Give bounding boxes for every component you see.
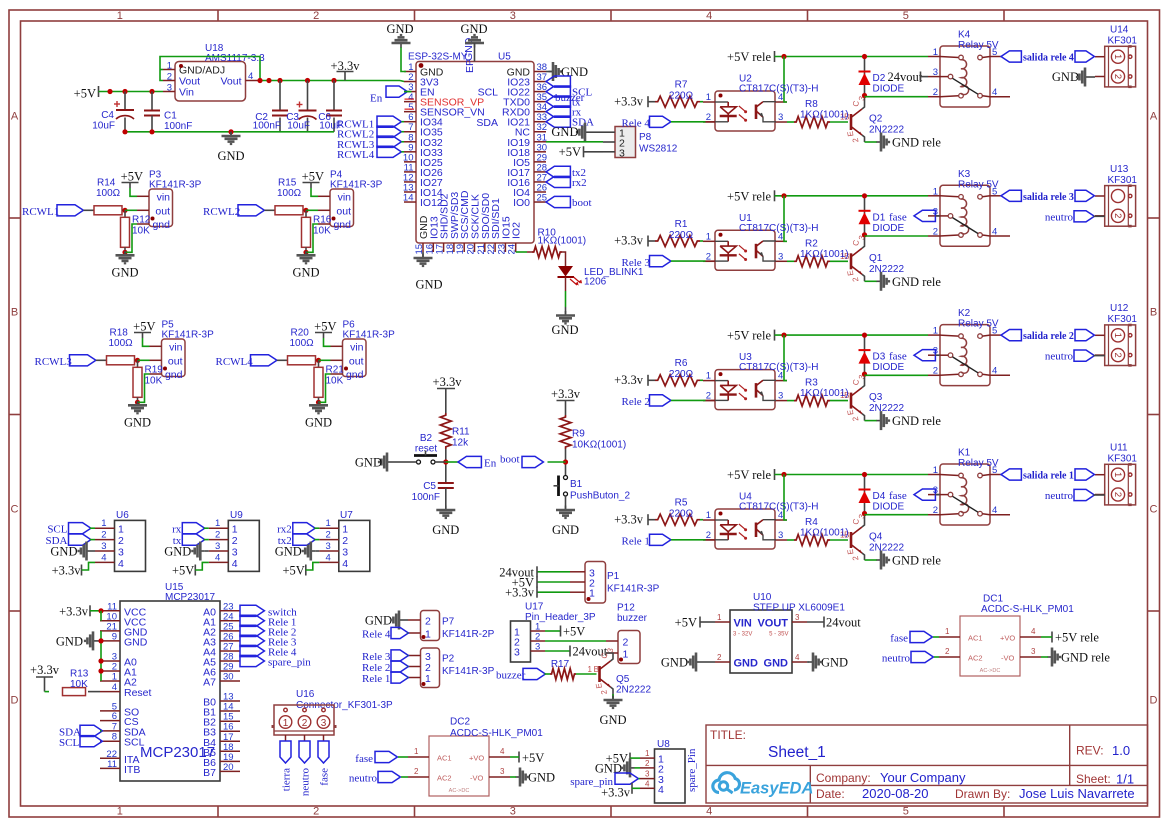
svg-text:11: 11 — [107, 759, 117, 770]
svg-text:2N2222: 2N2222 — [616, 685, 651, 696]
svg-text:3: 3 — [535, 642, 540, 653]
svg-text:GND rele: GND rele — [892, 554, 941, 568]
svg-text:K4: K4 — [958, 30, 971, 41]
svg-text:Rele 1: Rele 1 — [362, 673, 390, 685]
svg-text:GND: GND — [415, 278, 442, 292]
svg-text:AC1: AC1 — [437, 754, 452, 763]
svg-text:4: 4 — [101, 552, 106, 563]
svg-text:3 - 32V: 3 - 32V — [733, 632, 752, 638]
svg-text:Rele 4: Rele 4 — [362, 629, 391, 641]
svg-text:1: 1 — [933, 47, 938, 58]
svg-text:DC1: DC1 — [983, 594, 1003, 605]
svg-text:10uF: 10uF — [287, 121, 310, 132]
svg-text:P8: P8 — [639, 132, 652, 143]
svg-text:SCL: SCL — [478, 87, 499, 99]
svg-text:GND: GND — [561, 65, 588, 79]
svg-text:R18: R18 — [110, 328, 129, 339]
svg-text:+5V: +5V — [302, 170, 324, 184]
svg-text:GND: GND — [164, 545, 191, 559]
svg-text:salida rele 3: salida rele 3 — [1023, 192, 1074, 203]
svg-text:3: 3 — [933, 67, 938, 78]
svg-text:Drawn By:: Drawn By: — [955, 787, 1010, 801]
svg-text:1KΩ(1001): 1KΩ(1001) — [800, 528, 849, 539]
svg-text:vin: vin — [169, 341, 183, 353]
svg-text:4: 4 — [232, 558, 238, 570]
svg-text:1: 1 — [706, 510, 711, 521]
svg-text:boot: boot — [572, 197, 592, 209]
svg-text:1KΩ(1001): 1KΩ(1001) — [800, 388, 849, 399]
svg-text:1: 1 — [706, 371, 711, 382]
svg-text:R15: R15 — [278, 178, 297, 189]
svg-text:-VO: -VO — [1001, 654, 1015, 663]
svg-text:3: 3 — [795, 613, 800, 622]
svg-text:3: 3 — [778, 251, 783, 262]
svg-text:AC->DC: AC->DC — [449, 788, 470, 794]
svg-text:C: C — [11, 504, 19, 516]
svg-text:8: 8 — [112, 732, 117, 743]
svg-text:3: 3 — [645, 770, 650, 779]
svg-text:GND rele: GND rele — [892, 414, 941, 428]
svg-text:buzzer: buzzer — [617, 613, 648, 624]
svg-text:GND: GND — [292, 265, 319, 279]
svg-text:neutro: neutro — [300, 768, 312, 797]
svg-text:R3: R3 — [805, 378, 818, 389]
svg-text:U9: U9 — [230, 510, 243, 521]
svg-text:1: 1 — [117, 10, 123, 22]
svg-text:P1: P1 — [607, 571, 620, 582]
svg-text:gnd: gnd — [165, 369, 183, 381]
svg-text:Relay 5V: Relay 5V — [958, 458, 999, 469]
svg-text:4: 4 — [118, 558, 124, 570]
svg-text:1: 1 — [283, 718, 289, 729]
svg-text:4: 4 — [326, 552, 331, 563]
svg-text:fase: fase — [889, 490, 907, 502]
svg-text:neutro: neutro — [1045, 351, 1074, 363]
svg-text:4: 4 — [992, 226, 997, 237]
svg-text:spare_pin: spare_pin — [268, 657, 311, 669]
svg-text:1.0: 1.0 — [1112, 743, 1130, 758]
svg-text:+3.3v: +3.3v — [614, 234, 644, 248]
svg-text:220Ω: 220Ω — [669, 509, 694, 520]
svg-text:R20: R20 — [291, 328, 310, 339]
svg-text:3: 3 — [500, 767, 505, 776]
svg-text:GND: GND — [821, 656, 848, 670]
svg-text:2: 2 — [717, 653, 722, 662]
svg-text:fase: fase — [319, 768, 331, 786]
svg-text:RCWL4: RCWL4 — [216, 356, 254, 368]
svg-text:KF141R-2P: KF141R-2P — [442, 629, 495, 640]
svg-text:+5V rele: +5V rele — [727, 189, 771, 203]
svg-text:U14: U14 — [1110, 25, 1129, 36]
svg-text:GND: GND — [734, 658, 759, 670]
svg-text:RCWL2: RCWL2 — [203, 206, 240, 218]
svg-text:3: 3 — [326, 541, 331, 552]
svg-text:KF141R-3P: KF141R-3P — [330, 180, 383, 191]
svg-text:B7: B7 — [203, 767, 216, 779]
svg-text:P7: P7 — [442, 617, 455, 628]
svg-text:4: 4 — [992, 366, 997, 377]
svg-text:D: D — [1150, 695, 1158, 707]
svg-text:2: 2 — [623, 637, 629, 649]
svg-text:1KΩ(1001): 1KΩ(1001) — [538, 236, 587, 247]
svg-text:A: A — [11, 111, 19, 123]
svg-text:1: 1 — [933, 186, 938, 197]
svg-text:gnd: gnd — [346, 369, 364, 381]
svg-text:GND: GND — [551, 323, 578, 337]
svg-text:10KΩ(1001): 10KΩ(1001) — [572, 440, 626, 451]
svg-text:C4: C4 — [101, 110, 114, 121]
svg-text:Company:: Company: — [816, 771, 871, 785]
svg-text:MCP23017: MCP23017 — [165, 592, 215, 603]
svg-text:Relay 5V: Relay 5V — [958, 319, 999, 330]
svg-text:Q4: Q4 — [869, 532, 883, 543]
svg-text:DIODE: DIODE — [873, 223, 905, 234]
svg-text:REV:: REV: — [1076, 744, 1104, 758]
svg-text:salida rele 2: salida rele 2 — [1023, 331, 1074, 342]
svg-text:4: 4 — [1031, 627, 1036, 636]
svg-text:2: 2 — [118, 535, 124, 547]
svg-text:+3.3v: +3.3v — [59, 605, 89, 619]
svg-text:+5V: +5V — [121, 170, 143, 184]
svg-text:3: 3 — [321, 718, 327, 729]
svg-text:2: 2 — [342, 535, 348, 547]
svg-text:1: 1 — [112, 672, 117, 683]
svg-text:+5V: +5V — [282, 564, 304, 578]
svg-text:3: 3 — [619, 147, 625, 159]
svg-text:2: 2 — [313, 10, 319, 22]
svg-text:4: 4 — [992, 505, 997, 516]
svg-text:2: 2 — [167, 72, 172, 83]
svg-text:GND: GND — [50, 545, 77, 559]
svg-text:C5: C5 — [423, 481, 436, 492]
svg-text:+5V: +5V — [675, 616, 697, 630]
svg-text:2: 2 — [645, 759, 650, 768]
svg-text:Q1: Q1 — [869, 253, 883, 264]
svg-text:+5V rele: +5V rele — [727, 468, 771, 482]
svg-text:KF301: KF301 — [1108, 314, 1138, 325]
svg-text:1: 1 — [933, 465, 938, 476]
svg-text:Relay 5V: Relay 5V — [958, 40, 999, 51]
svg-text:3: 3 — [778, 112, 783, 123]
svg-text:GND: GND — [365, 614, 392, 628]
svg-text:out: out — [155, 205, 170, 217]
svg-text:WS2812: WS2812 — [639, 144, 678, 155]
svg-text:B: B — [594, 665, 599, 674]
svg-text:fase: fase — [889, 211, 907, 223]
svg-text:4: 4 — [248, 71, 253, 82]
svg-text:+5V: +5V — [172, 564, 194, 578]
svg-text:U8: U8 — [657, 739, 670, 750]
svg-text:1: 1 — [588, 665, 593, 674]
svg-text:Rele 1: Rele 1 — [622, 536, 650, 548]
svg-text:1: 1 — [706, 92, 711, 103]
svg-text:SCL: SCL — [59, 737, 79, 749]
svg-text:+VO: +VO — [469, 754, 484, 763]
svg-text:DC2: DC2 — [450, 717, 470, 728]
svg-text:GND rele: GND rele — [892, 136, 941, 150]
svg-text:tierra: tierra — [281, 768, 293, 791]
svg-text:3: 3 — [1031, 647, 1036, 656]
svg-text:RCWL4: RCWL4 — [337, 149, 375, 161]
svg-text:4: 4 — [658, 784, 664, 796]
svg-text:+5V: +5V — [522, 751, 544, 765]
svg-text:100Ω: 100Ω — [96, 188, 121, 199]
svg-text:1: 1 — [623, 649, 629, 661]
svg-text:ACDC-S-HLK_PM01: ACDC-S-HLK_PM01 — [981, 604, 1074, 615]
svg-text:GND: GND — [764, 658, 789, 670]
svg-text:GND: GND — [599, 713, 626, 727]
svg-text:3: 3 — [510, 10, 516, 22]
svg-text:1: 1 — [167, 61, 172, 72]
svg-text:1: 1 — [101, 518, 106, 529]
svg-text:3: 3 — [215, 541, 220, 552]
svg-text:IO2: IO2 — [511, 222, 523, 239]
svg-text:24vout: 24vout — [826, 616, 861, 630]
svg-text:5: 5 — [903, 10, 909, 22]
svg-text:neutro: neutro — [349, 773, 378, 785]
svg-text:220Ω: 220Ω — [669, 91, 694, 102]
svg-text:1: 1 — [706, 231, 711, 242]
svg-text:+5V: +5V — [133, 320, 155, 334]
svg-text:2: 2 — [425, 616, 431, 628]
svg-text:U16: U16 — [296, 689, 315, 700]
svg-text:salida rele 1: salida rele 1 — [1023, 471, 1074, 482]
svg-text:1: 1 — [425, 629, 431, 641]
svg-text:Date:: Date: — [816, 787, 845, 801]
svg-text:2: 2 — [945, 647, 950, 656]
svg-text:1: 1 — [933, 326, 938, 337]
svg-text:2: 2 — [101, 530, 106, 541]
svg-text:R1: R1 — [675, 219, 688, 230]
svg-text:2: 2 — [933, 87, 938, 98]
svg-text:D4: D4 — [873, 491, 886, 502]
svg-text:R5: R5 — [675, 498, 688, 509]
svg-text:R2: R2 — [805, 238, 818, 249]
svg-text:+VO: +VO — [1000, 634, 1015, 643]
svg-text:neutro: neutro — [1045, 490, 1074, 502]
svg-text:K1: K1 — [958, 448, 971, 459]
svg-text:out: out — [349, 355, 364, 367]
svg-text:fase: fase — [355, 753, 373, 765]
svg-text:GND: GND — [305, 415, 332, 429]
svg-text:GND: GND — [275, 545, 302, 559]
svg-text:GND: GND — [355, 456, 382, 470]
svg-text:10K: 10K — [132, 225, 150, 236]
svg-text:VIN: VIN — [734, 618, 752, 630]
svg-text:2N2222: 2N2222 — [869, 264, 904, 275]
svg-text:2: 2 — [933, 226, 938, 237]
svg-text:R9: R9 — [572, 429, 585, 440]
svg-text:3: 3 — [514, 647, 520, 659]
svg-text:rx2: rx2 — [277, 524, 292, 536]
svg-text:KF301: KF301 — [1108, 175, 1138, 186]
svg-text:DIODE: DIODE — [873, 502, 905, 513]
svg-text:GND: GND — [386, 22, 413, 36]
svg-text:CT817C(S)(T3)-H: CT817C(S)(T3)-H — [739, 502, 818, 513]
svg-text:EasyEDA: EasyEDA — [740, 780, 813, 798]
svg-text:ITB: ITB — [124, 764, 140, 776]
svg-text:CT817C(S)(T3)-H: CT817C(S)(T3)-H — [739, 223, 818, 234]
svg-text:+5V rele: +5V rele — [1055, 631, 1099, 645]
svg-text:+3.3v: +3.3v — [614, 373, 644, 387]
svg-text:+3.3v: +3.3v — [30, 663, 60, 677]
svg-text:+3.3v: +3.3v — [601, 786, 631, 800]
svg-text:boot: boot — [500, 454, 520, 466]
svg-text:1: 1 — [326, 518, 331, 529]
svg-text:GND rele: GND rele — [892, 275, 941, 289]
svg-text:Vin: Vin — [179, 87, 194, 99]
svg-text:4: 4 — [112, 682, 117, 693]
svg-text:2: 2 — [326, 530, 331, 541]
svg-text:GND: GND — [111, 265, 138, 279]
svg-text:5 - 35V: 5 - 35V — [769, 632, 788, 638]
svg-text:10uF: 10uF — [92, 121, 115, 132]
svg-text:Q3: Q3 — [869, 392, 883, 403]
svg-text:4: 4 — [500, 747, 505, 756]
svg-text:GND: GND — [528, 771, 555, 785]
svg-text:+3.3v: +3.3v — [52, 564, 82, 578]
svg-text:SCL: SCL — [124, 737, 145, 749]
svg-text:1KΩ(1001): 1KΩ(1001) — [800, 249, 849, 260]
svg-text:R14: R14 — [97, 178, 116, 189]
svg-text:4: 4 — [342, 558, 348, 570]
svg-text:Reset: Reset — [124, 687, 152, 699]
svg-text:GND: GND — [124, 636, 148, 648]
svg-text:4: 4 — [215, 552, 220, 563]
svg-text:B: B — [11, 307, 18, 319]
svg-text:buzzer: buzzer — [555, 92, 585, 104]
svg-text:DIODE: DIODE — [873, 84, 905, 95]
svg-text:3: 3 — [118, 547, 124, 559]
svg-text:KF301: KF301 — [1108, 36, 1138, 47]
svg-text:+5V rele: +5V rele — [727, 329, 771, 343]
svg-text:SCL: SCL — [47, 524, 67, 536]
svg-text:GND: GND — [661, 656, 688, 670]
svg-text:3: 3 — [778, 391, 783, 402]
svg-text:2: 2 — [1112, 492, 1123, 497]
svg-text:2: 2 — [215, 530, 220, 541]
svg-text:rx: rx — [172, 524, 182, 536]
svg-text:neutro: neutro — [1045, 211, 1074, 223]
svg-text:STEP UP XL6009E1: STEP UP XL6009E1 — [753, 603, 845, 614]
svg-text:U13: U13 — [1110, 164, 1129, 175]
svg-text:10K: 10K — [145, 375, 163, 386]
svg-text:B: B — [1150, 307, 1157, 319]
svg-text:10K: 10K — [313, 225, 331, 236]
svg-text:Vout: Vout — [220, 76, 241, 88]
svg-text:Rele 4: Rele 4 — [622, 118, 651, 130]
svg-text:D2: D2 — [873, 73, 886, 84]
svg-text:20: 20 — [223, 762, 234, 773]
svg-text:CT817C(S)(T3)-H: CT817C(S)(T3)-H — [739, 84, 818, 95]
svg-text:GND rele: GND rele — [1061, 651, 1110, 665]
svg-text:Relay 5V: Relay 5V — [958, 179, 999, 190]
svg-text:TITLE:: TITLE: — [710, 728, 746, 742]
svg-text:+5V: +5V — [314, 320, 336, 334]
svg-text:GND: GND — [56, 635, 83, 649]
svg-text:A7: A7 — [203, 677, 216, 689]
svg-text:4: 4 — [795, 653, 800, 662]
svg-text:2: 2 — [232, 535, 238, 547]
svg-text:PushButon_2: PushButon_2 — [570, 491, 630, 502]
svg-text:GND: GND — [432, 523, 459, 537]
svg-text:KF141R-3P: KF141R-3P — [442, 666, 495, 677]
svg-text:1: 1 — [1112, 54, 1123, 59]
svg-text:RCWL3: RCWL3 — [35, 356, 73, 368]
svg-text:+5V: +5V — [74, 87, 96, 101]
svg-text:GND: GND — [552, 523, 579, 537]
svg-text:Q2: Q2 — [869, 114, 883, 125]
svg-text:1: 1 — [414, 747, 419, 756]
svg-text:P2: P2 — [442, 654, 455, 665]
svg-text:2: 2 — [1112, 352, 1123, 357]
svg-text:U7: U7 — [340, 510, 353, 521]
svg-text:100Ω: 100Ω — [290, 338, 315, 349]
svg-text:En: En — [370, 93, 383, 105]
svg-text:KF141R-3P: KF141R-3P — [343, 330, 396, 341]
svg-text:2: 2 — [1112, 213, 1123, 218]
svg-text:R7: R7 — [675, 80, 688, 91]
svg-text:220Ω: 220Ω — [669, 230, 694, 241]
svg-text:3: 3 — [342, 547, 348, 559]
svg-text:+3.3v: +3.3v — [433, 375, 463, 389]
svg-text:1: 1 — [1112, 333, 1123, 338]
svg-text:spare_Pin: spare_Pin — [686, 748, 698, 792]
svg-text:1: 1 — [645, 749, 650, 758]
svg-text:+3.3v: +3.3v — [614, 94, 644, 108]
svg-text:14: 14 — [403, 193, 414, 204]
svg-text:out: out — [168, 355, 183, 367]
svg-text:KF141R-3P: KF141R-3P — [607, 584, 660, 595]
svg-text:1: 1 — [717, 613, 722, 622]
svg-text:1: 1 — [945, 627, 950, 636]
svg-text:3: 3 — [167, 83, 172, 94]
svg-text:10K: 10K — [70, 679, 88, 690]
svg-text:D: D — [11, 695, 19, 707]
svg-text:U6: U6 — [116, 510, 129, 521]
svg-text:Rele 2: Rele 2 — [622, 396, 650, 408]
svg-text:100nF: 100nF — [253, 121, 281, 132]
svg-text:2N2222: 2N2222 — [869, 403, 904, 414]
svg-text:GND: GND — [551, 125, 578, 139]
svg-text:2N2222: 2N2222 — [869, 125, 904, 136]
svg-text:24vout: 24vout — [888, 70, 923, 84]
svg-text:1/1: 1/1 — [1116, 772, 1134, 787]
svg-text:U17: U17 — [525, 602, 544, 613]
svg-text:1: 1 — [342, 524, 348, 536]
svg-text:1: 1 — [232, 524, 238, 536]
svg-text:-VO: -VO — [470, 774, 484, 783]
svg-text:1: 1 — [589, 588, 595, 600]
svg-text:30: 30 — [223, 672, 234, 683]
svg-text:U5: U5 — [498, 52, 511, 63]
svg-text:GND: GND — [460, 22, 487, 36]
svg-text:rx2: rx2 — [572, 177, 587, 189]
svg-text:fase: fase — [890, 633, 908, 645]
svg-text:1206: 1206 — [584, 277, 607, 288]
svg-text:salida rele 4: salida rele 4 — [1023, 53, 1074, 64]
svg-text:2: 2 — [313, 806, 319, 818]
svg-text:1: 1 — [425, 673, 431, 685]
svg-text:3: 3 — [510, 806, 516, 818]
svg-text:KF141R-3P: KF141R-3P — [162, 330, 215, 341]
svg-text:Sheet_1: Sheet_1 — [768, 744, 826, 761]
svg-text:vin: vin — [157, 191, 171, 203]
svg-text:U11: U11 — [1110, 443, 1128, 454]
svg-text:GND: GND — [124, 415, 151, 429]
svg-text:gnd: gnd — [152, 219, 170, 231]
svg-text:KF301: KF301 — [1108, 454, 1138, 465]
